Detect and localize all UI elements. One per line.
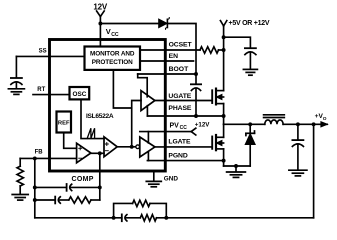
wire boot tie to high-side driver <box>138 74 148 97</box>
node junction branch2 <box>33 198 37 202</box>
svg-text:+5V OR +12V: +5V OR +12V <box>229 20 270 27</box>
node junction loop right <box>164 216 168 220</box>
ground FB resistor <box>12 195 28 201</box>
capacitor C_IN <box>245 48 256 69</box>
resistor R_FB <box>17 158 23 194</box>
diode D1 bootstrap <box>159 18 169 30</box>
node junction loop left <box>112 216 116 220</box>
wire PHASE pin <box>147 115 223 117</box>
ground power stage <box>227 166 246 177</box>
wire error amp output <box>91 152 104 154</box>
oscillator OSC block <box>70 87 90 99</box>
wire phase tie from high-side driver <box>146 106 148 116</box>
svg-text:SS: SS <box>39 48 47 54</box>
resistor R2 compensation <box>69 197 91 203</box>
wire feedback loop top <box>114 203 167 217</box>
svg-text:RT: RT <box>37 87 45 93</box>
wire OCSET pin <box>140 49 200 51</box>
svg-text:REF: REF <box>58 121 70 127</box>
capacitor C3 feedback <box>122 214 127 221</box>
wire ground link Q2 source to schottky anode <box>224 165 251 167</box>
wire monitor box to gate logic <box>113 70 131 108</box>
resistor R4 feedback parallel <box>133 200 150 206</box>
op-amp error amplifier <box>77 143 91 163</box>
wire FB branch vertical <box>34 158 36 217</box>
node junction boot cap to phase <box>194 114 198 118</box>
node junction OCSET rail <box>222 48 226 52</box>
ground SS cap <box>8 89 24 95</box>
transistor Q2 lower MOSFET <box>212 124 223 166</box>
node junction PGND <box>222 159 226 163</box>
wire COMP pin vertical <box>99 153 101 200</box>
label MONITOR AND PROTECTION <box>90 50 135 66</box>
wire RT pin <box>33 94 70 96</box>
node junction driver input <box>130 145 134 149</box>
wire VCC top rail to diode <box>100 23 159 25</box>
capacitor C2 compensation <box>55 197 69 204</box>
svg-text:FB: FB <box>35 149 44 155</box>
wire compensation branch1 <box>35 186 67 188</box>
wire OSC to PWM comparator <box>81 99 104 138</box>
svg-text:GND: GND <box>164 175 179 182</box>
wire BOOT pin <box>138 73 196 75</box>
wire boot feed down to BOOT pin <box>167 24 196 75</box>
wire bottom feedback rail <box>35 217 314 219</box>
svg-text:EN: EN <box>169 53 179 60</box>
svg-text:O: O <box>323 116 327 122</box>
node sawtooth symbol <box>87 128 94 138</box>
wire UGATE pin to Q1 gate <box>155 100 212 102</box>
wire FB pin <box>20 157 76 159</box>
op-amp low-side driver with bubble <box>136 137 155 157</box>
node junction VCC <box>98 22 102 26</box>
ground output cap <box>289 170 307 176</box>
wire output rail <box>283 123 327 125</box>
svg-text:LGATE: LGATE <box>168 139 191 146</box>
svg-text:BOOT: BOOT <box>169 66 189 73</box>
diode D2 schottky <box>246 124 255 166</box>
wire compensation branch2 <box>35 199 55 201</box>
resistor R3 feedback series <box>140 215 156 221</box>
node junction feedback tap <box>312 122 316 126</box>
svg-text:PV: PV <box>170 122 180 129</box>
wire comparator output <box>117 146 136 148</box>
capacitor C_OUT <box>292 124 303 169</box>
op-amp high-side driver <box>141 91 155 111</box>
capacitor C_SS <box>11 56 22 88</box>
wire PVCC pin with +12V arrow <box>140 128 196 135</box>
svg-text:MONITOR AND: MONITOR AND <box>90 50 135 57</box>
node junction schottky cathode <box>248 122 252 126</box>
op-amp PWM comparator <box>104 137 117 157</box>
svg-text:COMP: COMP <box>72 176 94 183</box>
wire EN pin stub <box>140 60 194 62</box>
capacitor C1 compensation <box>67 184 100 191</box>
reference REF block <box>57 112 72 133</box>
node junction BOOT <box>194 72 198 76</box>
svg-text:PGND: PGND <box>168 152 187 159</box>
node junction power ground <box>234 164 238 168</box>
wire PGND tie from low-side driver <box>147 152 149 160</box>
label +Vo output <box>315 113 327 122</box>
node junction FB <box>33 156 37 160</box>
inductor L1 <box>264 115 285 125</box>
wire PGND pin <box>147 160 223 162</box>
wire SS pin to monitor <box>16 55 84 57</box>
node junction input cap branch <box>222 35 226 39</box>
wire feedback riser <box>313 124 315 218</box>
svg-text:V: V <box>106 27 111 36</box>
svg-text:OSC: OSC <box>72 91 86 98</box>
node output arrow +Vo <box>321 122 328 127</box>
svg-text:12V: 12V <box>93 2 107 11</box>
node junction output cap <box>296 122 300 126</box>
node junction branch1 <box>33 185 37 189</box>
svg-text:OCSET: OCSET <box>169 41 193 48</box>
wire OCSET resistor to +5V rail <box>219 49 224 51</box>
label VCC pin <box>106 27 119 38</box>
op-amp U1 ISL6522A IC outline <box>50 40 166 172</box>
svg-text:UGATE: UGATE <box>168 93 191 100</box>
node junction error amp out <box>98 151 102 155</box>
svg-text:ISL6522A: ISL6522A <box>86 113 114 120</box>
wire phase node to inductor <box>224 123 265 125</box>
wire REF to error amp <box>64 133 77 149</box>
block monitor and protection <box>85 47 141 70</box>
node 12V input terminal <box>97 11 105 47</box>
ground GND pin <box>146 171 161 187</box>
svg-text:CC: CC <box>111 32 119 38</box>
node junction phase pin <box>222 114 226 118</box>
wire PVCC tie to low-side driver <box>147 132 149 143</box>
svg-text:+12V: +12V <box>195 122 210 129</box>
capacitor C_BOOT bootstrap <box>191 74 201 116</box>
resistor R_OCSET <box>200 47 219 53</box>
wire branch2 to COMP <box>91 199 100 201</box>
wire LGATE pin to Q2 gate <box>155 146 212 148</box>
svg-text:CC: CC <box>180 125 188 131</box>
label PVCC pin <box>170 122 188 131</box>
wire to input capacitor <box>224 37 251 48</box>
svg-text:PROTECTION: PROTECTION <box>92 59 133 66</box>
node junction COMP branch1 <box>98 185 102 189</box>
transistor Q1 upper MOSFET <box>212 89 223 125</box>
node +5V or +12V input terminal <box>220 21 226 91</box>
ground input cap <box>243 69 257 75</box>
svg-text:PHASE: PHASE <box>168 105 191 112</box>
wire driver input vertical <box>132 101 141 147</box>
